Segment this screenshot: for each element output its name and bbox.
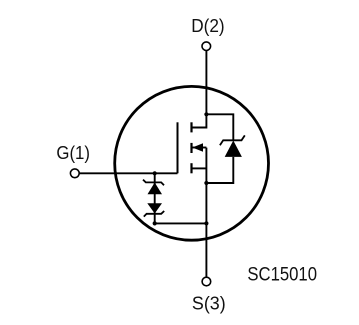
wire zener bottom to source rail [155, 222, 207, 224]
node source-body junction [204, 181, 208, 185]
wire source rail vertical [205, 148, 207, 278]
transistor Q1 channel source dash [190, 163, 192, 173]
svg-text:SC15010: SC15010 [247, 264, 317, 286]
wire body arrow to source rail [192, 147, 206, 149]
node gate-zener junction [153, 171, 157, 175]
svg-text:S(3): S(3) [192, 294, 226, 314]
zener Z1 cathode bar [143, 180, 164, 186]
zener Z2 cathode bar [144, 211, 164, 217]
node source-zener junction [204, 221, 208, 225]
transistor Q1 gate electrode [177, 122, 179, 173]
wire gate [79, 172, 177, 174]
wire zener branch vertical [154, 173, 156, 223]
diode D1 cathode bar [220, 135, 245, 145]
svg-text:D(2): D(2) [191, 16, 224, 36]
transistor Q1 body arrow [192, 143, 203, 152]
wire body diode to source node [206, 157, 233, 183]
transistor Q1 channel body dash [190, 143, 192, 153]
wire drain node to body diode [206, 114, 233, 140]
terminal G(1) [70, 169, 79, 178]
wire source lead [192, 167, 207, 169]
node zener bottom junction [153, 221, 157, 225]
zener Z2 triangle [147, 203, 162, 213]
node drain junction [204, 112, 208, 116]
zener Z1 triangle [148, 183, 163, 195]
transistor Q1 channel drain dash [190, 122, 192, 132]
wire drain lead to MOSFET [192, 114, 207, 127]
svg-text:G(1): G(1) [56, 143, 90, 163]
diode D1 triangle [225, 141, 242, 157]
wire drain terminal to node [205, 51, 207, 115]
transistor body circle [115, 86, 269, 240]
terminal S(3) [202, 277, 211, 286]
terminal D(2) [202, 42, 211, 51]
